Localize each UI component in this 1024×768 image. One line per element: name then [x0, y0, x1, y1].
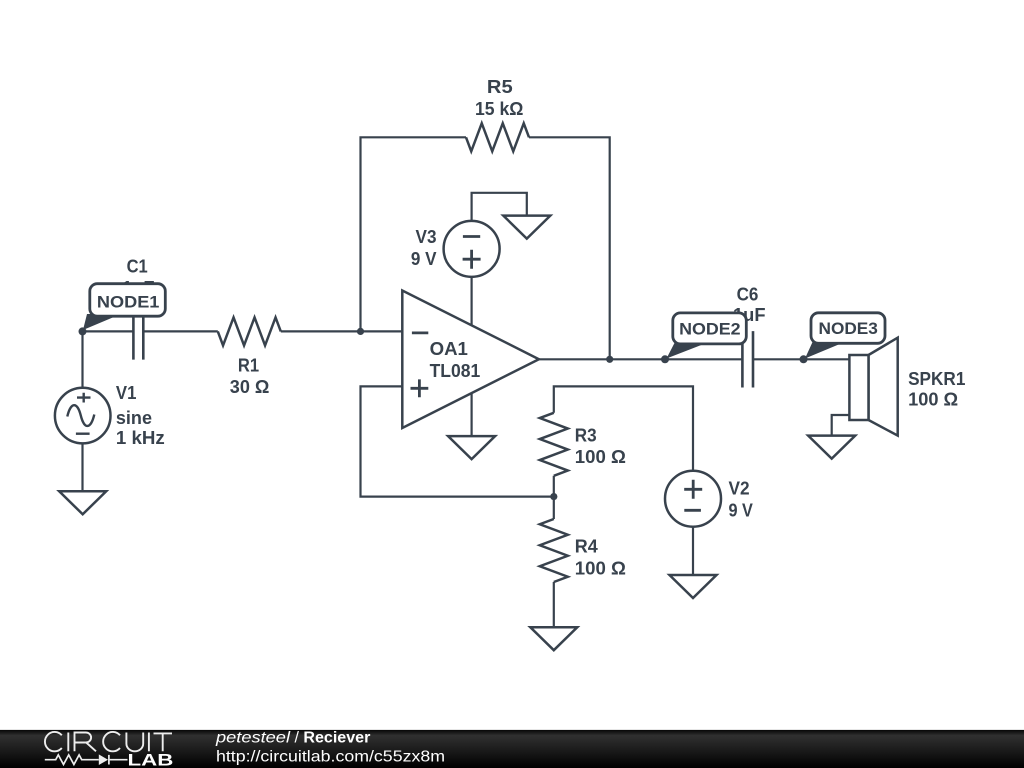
svg-text:9 V: 9 V	[411, 249, 437, 269]
svg-text:C6: C6	[737, 285, 759, 305]
svg-text:30 Ω: 30 Ω	[230, 377, 270, 397]
svg-text:C1: C1	[127, 257, 148, 277]
svg-text:petesteel / Reciever: petesteel / Reciever	[215, 729, 370, 746]
svg-text:R1: R1	[238, 356, 259, 376]
svg-text:1 kHz: 1 kHz	[116, 428, 165, 448]
svg-text:100 Ω: 100 Ω	[575, 559, 626, 579]
svg-text:http://circuitlab.com/c55zx8m: http://circuitlab.com/c55zx8m	[216, 748, 445, 765]
svg-text:TL081: TL081	[430, 361, 481, 381]
svg-text:LAB: LAB	[128, 752, 174, 768]
svg-text:100 Ω: 100 Ω	[908, 390, 958, 410]
svg-text:V3: V3	[416, 227, 437, 247]
svg-text:NODE2: NODE2	[679, 320, 741, 339]
svg-text:NODE3: NODE3	[819, 319, 878, 338]
svg-text:SPKR1: SPKR1	[908, 369, 965, 389]
svg-text:R4: R4	[575, 537, 598, 557]
svg-text:100 Ω: 100 Ω	[575, 447, 626, 467]
svg-text:V2: V2	[729, 478, 750, 498]
svg-text:15 kΩ: 15 kΩ	[475, 99, 523, 119]
svg-text:OA1: OA1	[430, 339, 468, 359]
svg-text:NODE1: NODE1	[97, 293, 159, 312]
svg-text:R5: R5	[487, 77, 513, 97]
svg-text:V1: V1	[116, 383, 136, 403]
svg-text:R3: R3	[575, 425, 597, 445]
svg-text:9 V: 9 V	[729, 501, 753, 521]
svg-text:sine: sine	[116, 408, 152, 428]
